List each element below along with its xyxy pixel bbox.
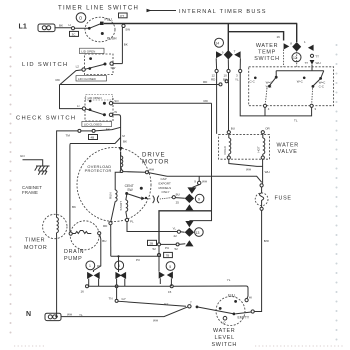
cabinet frame ground <box>35 166 50 175</box>
motor terminal RD <box>103 222 112 257</box>
svg-text:4B: 4B <box>91 136 95 140</box>
svg-text:MODELS: MODELS <box>159 186 172 190</box>
scan artifact dots right <box>336 44 338 341</box>
svg-text:LID CLOSED: LID CLOSED <box>78 77 97 81</box>
svg-text:22: 22 <box>174 234 178 238</box>
wire BU down to water valve <box>229 73 235 131</box>
run winding <box>109 172 121 221</box>
timer line switch mechanism <box>75 17 117 42</box>
svg-text:25: 25 <box>176 201 180 205</box>
svg-text:TT: TT <box>315 54 319 58</box>
timer motor <box>43 213 67 316</box>
svg-text:52: 52 <box>153 247 157 251</box>
buss corner down to water temp switch pin 1 <box>296 24 298 43</box>
svg-text:DRAIN: DRAIN <box>64 249 84 255</box>
wire M BK down from check switch <box>113 115 127 144</box>
svg-text:2B: 2B <box>150 242 154 246</box>
wire RD down to check switch <box>60 85 83 109</box>
wire YL down and right to water temp switch terminals 4 and 3 <box>240 73 311 116</box>
svg-text:LO: LO <box>222 320 227 324</box>
label: OVERLOAD PROTECTOR <box>85 164 112 173</box>
water level switch <box>188 294 255 326</box>
svg-text:PULL: PULL <box>105 18 114 22</box>
svg-text:DRIVE: DRIVE <box>142 152 166 159</box>
buss branch to connector 14 <box>227 24 229 51</box>
svg-text:START: START <box>119 201 123 211</box>
svg-text:LI: LI <box>69 23 72 27</box>
connector plug N <box>45 313 61 320</box>
motor terminal PL <box>125 218 177 231</box>
connector 13 <box>185 221 204 246</box>
internal timer buss wire <box>104 23 297 25</box>
terminals at right end of RD wire <box>219 80 228 86</box>
svg-text:SW: SW <box>127 188 133 192</box>
svg-text:SWITCH: SWITCH <box>212 342 237 348</box>
svg-text:HOT: HOT <box>257 146 261 153</box>
label: WATER VALVE <box>277 143 299 156</box>
wire from water valve column down to connector 13 <box>189 176 211 220</box>
svg-text:B/R: B/R <box>264 239 270 243</box>
svg-text:YL: YL <box>227 278 231 282</box>
internal timer buss leader line <box>147 9 177 13</box>
wire from junction to 16 pin <box>228 32 283 41</box>
label: DRAIN PUMP <box>64 249 84 262</box>
svg-text:EMPTY: EMPTY <box>238 316 250 320</box>
check switch contacts <box>77 99 119 117</box>
wire B/R from fuse to water level switch <box>254 210 269 311</box>
branch up to terminal 4 <box>264 107 266 116</box>
connector 9 terminal WH <box>193 176 208 187</box>
connector 12 circle <box>292 53 301 62</box>
svg-text:L2: L2 <box>76 65 80 69</box>
svg-text:LID CLOSED: LID CLOSED <box>84 123 103 127</box>
svg-text:WH: WH <box>149 167 154 171</box>
svg-text:BK: BK <box>124 43 128 47</box>
svg-text:YL: YL <box>173 227 177 231</box>
ground wire GN <box>20 154 43 166</box>
wire YL to water level switch <box>173 278 248 299</box>
svg-text:1: 1 <box>89 264 91 268</box>
svg-text:BK: BK <box>123 140 127 144</box>
scan artifact dots left <box>10 37 12 334</box>
lid switch LID OPEN label <box>80 48 105 53</box>
svg-text:DP: DP <box>97 264 101 268</box>
overload protector coil <box>120 152 123 173</box>
terminal 3C <box>70 27 79 37</box>
svg-text:GY: GY <box>164 302 168 306</box>
cold valve solenoid <box>223 131 231 160</box>
scan artifact dotted line bottom <box>14 345 345 347</box>
svg-text:FULL: FULL <box>228 294 236 298</box>
wire RD down <box>216 73 218 134</box>
switch output node SW <box>122 24 130 31</box>
svg-text:SWITCH: SWITCH <box>254 56 279 62</box>
water temp switch terminals 4 and 3 <box>263 104 316 111</box>
connector 9 <box>185 187 204 210</box>
label: CABINET FRAME <box>22 185 42 195</box>
wire YL 22 to connector 13 <box>173 227 185 238</box>
svg-text:SW: SW <box>111 66 116 70</box>
svg-text:PL: PL <box>130 220 134 224</box>
wire P3 <box>111 256 161 262</box>
svg-text:LI: LI <box>77 104 80 108</box>
connector 5 <box>157 246 175 286</box>
svg-text:ONLY: ONLY <box>162 190 170 194</box>
svg-text:CHECK SWITCH: CHECK SWITCH <box>16 116 76 122</box>
svg-text:CAP: CAP <box>161 177 167 181</box>
wire TM tap to timer motor <box>57 127 121 213</box>
capacitor, export models <box>145 177 185 205</box>
svg-text:EXPORT: EXPORT <box>159 181 171 185</box>
dashed pin leads into water temp switch <box>284 50 297 67</box>
svg-text:INTERNAL TIMER BUSS: INTERNAL TIMER BUSS <box>179 9 267 15</box>
lid switch contacts <box>76 57 123 71</box>
connector 14 pins <box>211 50 242 82</box>
svg-text:WATER: WATER <box>277 143 299 149</box>
svg-text:FRAME: FRAME <box>22 190 38 195</box>
check switch LID OPEN label <box>86 94 113 100</box>
svg-text:C-C: C-C <box>319 85 325 89</box>
timer cam symbol <box>76 13 86 23</box>
svg-text:PUMP: PUMP <box>64 256 82 262</box>
svg-text:FUSE: FUSE <box>275 196 292 202</box>
svg-text:7T: 7T <box>305 61 309 65</box>
svg-text:MOTOR: MOTOR <box>24 245 47 251</box>
neutral wire <box>55 307 188 323</box>
label: TIMER MOTOR <box>24 238 47 252</box>
svg-text:GY: GY <box>122 297 126 301</box>
svg-text:TIMER: TIMER <box>25 238 45 244</box>
svg-text:YL: YL <box>79 313 83 317</box>
wire L1 to timer line switch, BK <box>55 23 71 28</box>
svg-text:BK: BK <box>72 205 76 209</box>
wire GY junction to water level switch <box>109 296 187 306</box>
drain pump <box>69 205 101 250</box>
wire branch to drain pump <box>70 138 121 232</box>
wire RD from lid switch to lower bus <box>56 70 221 85</box>
hot valve solenoid <box>257 126 271 159</box>
svg-text:7B: 7B <box>166 254 170 258</box>
svg-text:P3: P3 <box>136 258 140 262</box>
svg-text:TN: TN <box>109 296 113 300</box>
svg-text:BU: BU <box>176 192 180 196</box>
svg-text:5: 5 <box>169 265 171 269</box>
svg-text:16: 16 <box>81 290 85 294</box>
wire WH to connector 9 net <box>123 167 167 176</box>
svg-text:PUSH: PUSH <box>107 37 117 41</box>
water temp switch dashed box <box>249 67 334 106</box>
wire pump bus lower <box>81 285 174 294</box>
svg-text:W: W <box>114 110 117 114</box>
wire BU drain pump to connector 1 <box>93 235 106 272</box>
wire from check switch down right side <box>211 103 213 176</box>
svg-text:WATER: WATER <box>213 328 235 334</box>
wire into drive motor <box>119 138 123 170</box>
svg-text:52: 52 <box>175 247 179 251</box>
water temp switch pins <box>277 35 314 51</box>
wire BK down from timer line switch <box>122 28 127 64</box>
terminal 2B and PU 52 wire <box>148 240 186 251</box>
svg-text:T: T <box>234 50 236 54</box>
water valve dashed box <box>219 135 270 160</box>
svg-text:WH: WH <box>316 61 321 65</box>
svg-text:WH: WH <box>265 170 270 174</box>
lid switch dashed box <box>85 54 114 75</box>
svg-text:L1: L1 <box>19 22 27 31</box>
svg-text:COLD: COLD <box>223 145 227 154</box>
svg-text:PU: PU <box>165 246 169 250</box>
svg-text:GN: GN <box>20 154 25 158</box>
connector 14 circle <box>215 38 224 47</box>
svg-text:WH: WH <box>153 319 158 323</box>
water temp switch contacts <box>250 65 327 104</box>
svg-text:W-C: W-C <box>297 80 304 84</box>
svg-text:YL: YL <box>235 77 239 81</box>
label: WATER TEMP SWITCH <box>254 43 279 62</box>
svg-text:BK: BK <box>59 23 63 27</box>
lid switch LID CLOSED label <box>76 76 107 81</box>
svg-text:WATER: WATER <box>256 43 278 49</box>
svg-text:C-C: C-C <box>250 80 256 84</box>
svg-text:RUN: RUN <box>109 193 113 200</box>
svg-text:13: 13 <box>196 231 200 235</box>
fuse <box>255 184 291 211</box>
svg-text:LEVEL: LEVEL <box>215 335 235 341</box>
svg-text:WH: WH <box>67 313 72 317</box>
svg-text:BU: BU <box>223 77 227 81</box>
wire from connector 9 down to junction 2B <box>159 211 212 243</box>
terminal 4B <box>89 135 98 140</box>
label: WATER LEVEL SWITCH <box>212 328 237 348</box>
svg-text:BU: BU <box>102 239 106 243</box>
svg-text:14: 14 <box>215 41 219 45</box>
svg-text:WH: WH <box>202 179 207 183</box>
drive motor dashed circle <box>77 148 151 222</box>
svg-text:N: N <box>26 311 31 318</box>
check switch LID CLOSED label <box>82 121 112 131</box>
svg-text:TL: TL <box>294 119 298 123</box>
label: DRIVE MOTOR <box>142 152 170 166</box>
svg-text:VALVE: VALVE <box>278 149 298 155</box>
svg-text:MOTOR: MOTOR <box>142 159 170 166</box>
wire across to fuse column <box>167 176 262 182</box>
wire check switch to water valve column <box>113 102 212 104</box>
start winding <box>119 195 128 218</box>
svg-text:15: 15 <box>168 290 172 294</box>
svg-text:PROTECTOR: PROTECTOR <box>85 168 112 173</box>
svg-text:SO: SO <box>114 99 119 103</box>
svg-text:LID OPEN: LID OPEN <box>81 49 95 53</box>
svg-text:WH: WH <box>246 168 251 172</box>
svg-text:9: 9 <box>198 197 200 201</box>
terminal PT <box>119 13 128 18</box>
connector plug L1 <box>38 24 55 32</box>
svg-text:TM: TM <box>66 134 71 138</box>
svg-text:PT: PT <box>120 14 124 18</box>
svg-text:16: 16 <box>277 35 281 39</box>
check switch dashed box <box>85 98 113 121</box>
svg-text:BU: BU <box>231 126 235 130</box>
connector 1 <box>86 261 100 286</box>
svg-text:TIMER LINE SWITCH: TIMER LINE SWITCH <box>58 6 139 12</box>
svg-text:LID OPEN: LID OPEN <box>88 96 102 100</box>
svg-text:O: O <box>79 15 83 20</box>
terminal TT <box>305 54 321 65</box>
svg-text:HI: HI <box>249 296 252 300</box>
centrifugal switch <box>125 184 146 200</box>
connector 3 <box>115 255 126 300</box>
svg-text:LID SWITCH: LID SWITCH <box>22 62 69 68</box>
svg-text:TEMP: TEMP <box>258 50 276 56</box>
water valve common WH wires <box>229 159 270 184</box>
svg-text:SW: SW <box>125 28 130 32</box>
